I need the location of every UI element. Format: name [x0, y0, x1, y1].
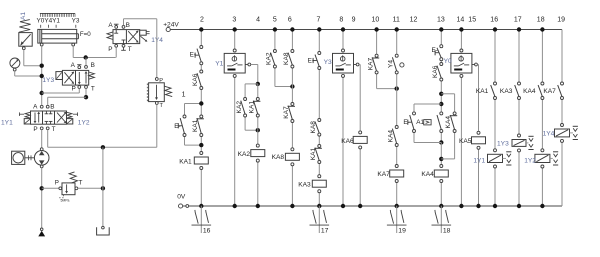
svg-text:1Y2: 1Y2: [524, 158, 536, 165]
svg-text:KA8: KA8: [272, 154, 285, 161]
pushbutton E- (rung 2): [190, 46, 203, 65]
current path numbers 1-19: [182, 16, 565, 98]
svg-text:5: 5: [273, 16, 277, 23]
svg-text:KA8: KA8: [283, 52, 290, 65]
svg-text:1Y4: 1Y4: [543, 130, 555, 137]
valve 1Y3 port P: [72, 86, 81, 93]
svg-text:B: B: [126, 22, 130, 29]
valve 1Y4 port B: [122, 22, 130, 29]
contact KA1 (rung 16): [476, 82, 497, 100]
svg-text:1Y3: 1Y3: [42, 77, 54, 84]
valve solenoid 1Y3: [497, 134, 526, 152]
contact KA2 (rung 5): [266, 50, 277, 69]
svg-text:KA4: KA4: [421, 171, 434, 178]
rung 14 wire: [459, 27, 463, 208]
suppressor 1Y3: [526, 136, 534, 149]
svg-text:4: 4: [256, 16, 260, 23]
svg-text:KA1: KA1: [310, 147, 317, 160]
suppressor 1Y4: [570, 126, 578, 139]
svg-text:Y3: Y3: [324, 59, 332, 66]
svg-text:KA1: KA1: [249, 101, 256, 114]
svg-text:KA6: KA6: [341, 138, 354, 145]
contact KA8 (rung 6): [283, 50, 294, 69]
parallel branch 12 wire: [414, 104, 441, 143]
svg-text:E-: E-: [403, 119, 409, 126]
rung 10 wire: [374, 27, 399, 91]
valve 1Y3 port B: [85, 62, 95, 69]
cylinder ports: [40, 43, 74, 46]
valve 1Y3 body: [62, 70, 88, 85]
rung 6 wire: [290, 27, 294, 208]
contact KA4 (rung 18): [523, 82, 544, 100]
svg-text:15: 15: [468, 16, 476, 23]
rung 16 wire: [493, 27, 497, 208]
svg-text:17: 17: [514, 16, 522, 23]
pressure gauge: [10, 58, 20, 71]
svg-text:KA6: KA6: [432, 65, 439, 78]
valve 1Y3 label: [42, 77, 54, 84]
svg-text:KA2: KA2: [236, 101, 243, 114]
wire cylinder left port to trunk: [40, 46, 44, 105]
svg-text:E-: E-: [174, 123, 180, 130]
svg-text:7: 7: [316, 16, 320, 23]
svg-text:P: P: [33, 126, 37, 133]
svg-text:16: 16: [203, 228, 211, 235]
svg-text:E-: E-: [190, 52, 196, 59]
svg-text:A1: A1: [416, 119, 424, 126]
valve 1Y4 port T: [121, 44, 132, 53]
svg-text:KA2: KA2: [238, 151, 251, 158]
valve 4/3 port A: [33, 104, 43, 111]
wire cylinder right port: [73, 46, 116, 60]
svg-text:Y0: Y0: [444, 58, 452, 65]
svg-text:5MPa: 5MPa: [61, 199, 70, 203]
wire 1Y3 B up: [85, 58, 87, 66]
pressure switch Y1: [215, 49, 251, 77]
rung 17 wire: [517, 27, 521, 208]
tank connection triangle: [38, 228, 45, 236]
svg-text:1Y1: 1Y1: [1, 119, 13, 126]
proximity switch A1 (rung 13): [416, 112, 443, 133]
contact KA7 n.c. (rung 6): [283, 103, 295, 123]
svg-text:P: P: [108, 46, 112, 53]
relay coil KA5: [459, 131, 486, 149]
limit indicator 18: [432, 206, 452, 235]
valve 1Y4 solenoid: [140, 30, 150, 42]
svg-text:KA7: KA7: [367, 57, 374, 70]
wire trunk to relief valve: [42, 187, 59, 189]
valve 1Y4 port P: [108, 44, 117, 53]
svg-text:KA8: KA8: [310, 121, 317, 134]
svg-text:0V: 0V: [177, 194, 186, 201]
valve 1Y1/1Y2 labels: [1, 119, 90, 126]
contact KA4 (rung 11): [388, 126, 399, 147]
valve 1Y4 port A: [108, 22, 118, 29]
svg-text:10: 10: [372, 16, 380, 23]
pushbutton E- (rung 13): [432, 45, 443, 61]
wire 1Y3 T to 4/3 B: [48, 88, 89, 105]
contact KA1 n.c. (rung 4): [249, 98, 261, 118]
svg-text:18: 18: [537, 16, 545, 23]
svg-text:KA1: KA1: [192, 119, 199, 132]
pressure switch Y0: [444, 49, 478, 77]
svg-text:KA7: KA7: [283, 106, 290, 119]
svg-text:3: 3: [232, 16, 236, 23]
svg-text:A1: A1: [20, 12, 27, 20]
pushbutton E- (branch 12): [403, 112, 415, 133]
cylinder A1 body: [38, 29, 79, 43]
svg-text:KA7: KA7: [543, 88, 556, 95]
wire pump to tank: [40, 168, 44, 228]
svg-text:E-: E-: [432, 47, 438, 54]
svg-text:T: T: [79, 180, 83, 187]
wire sequence valve T to return: [103, 104, 157, 147]
relay coil KA7: [377, 165, 403, 183]
tank symbol: [97, 226, 110, 235]
rung 19 wire: [561, 98, 563, 125]
svg-text:1Y1: 1Y1: [473, 158, 485, 165]
motor shaft: [25, 155, 35, 160]
valve solenoid 1Y4: [543, 124, 570, 143]
rung 3 wire: [233, 27, 237, 208]
rung 18 wire: [540, 27, 544, 208]
relay coil KA1: [179, 152, 208, 170]
pushbutton E- (branch 1): [174, 115, 186, 137]
svg-text:8: 8: [339, 16, 343, 23]
Y1 output wire: [245, 65, 260, 209]
Y0 output wire: [476, 65, 480, 209]
relay coil KA6: [341, 131, 367, 149]
accumulator A1 valve: [19, 33, 32, 50]
pressure switch Y3: [324, 49, 359, 77]
svg-text:KA5: KA5: [459, 138, 472, 145]
svg-text:KA1: KA1: [476, 88, 489, 95]
svg-text:F=0: F=0: [80, 31, 91, 38]
rung 8 wire: [341, 27, 345, 208]
svg-text:19: 19: [557, 16, 565, 23]
rung 11 wire: [395, 27, 399, 208]
valve 1Y4 body: [113, 30, 140, 44]
svg-text:B: B: [91, 62, 95, 69]
hydraulic pump: [34, 148, 49, 168]
contact KA7 n.c. (rung 10): [367, 54, 379, 74]
contact KA7 (rung 19): [543, 82, 563, 100]
svg-text:KA2: KA2: [266, 52, 273, 65]
valve 4/3 port P: [33, 126, 43, 133]
parallel branch 1 wire: [185, 101, 204, 147]
svg-text:Y1: Y1: [215, 61, 223, 68]
svg-text:KA3: KA3: [298, 181, 311, 188]
wire 1Y3 P to trunk: [42, 88, 80, 93]
suppressor 1Y1: [503, 152, 512, 165]
relay coil KA4: [421, 165, 448, 183]
svg-text:T: T: [128, 46, 132, 53]
svg-text:A: A: [33, 104, 38, 111]
relay coil KA2: [238, 144, 265, 162]
svg-text:1: 1: [182, 92, 186, 99]
electric motor: [12, 151, 25, 164]
svg-text:KA6: KA6: [192, 73, 199, 86]
valve 4/3 port T: [46, 126, 55, 133]
svg-text:KA4: KA4: [445, 116, 452, 129]
pressure relief valve: [55, 172, 83, 203]
svg-text:KA3: KA3: [500, 88, 513, 95]
svg-text:11: 11: [393, 16, 400, 23]
svg-text:Y0Y4Y1: Y0Y4Y1: [37, 18, 61, 25]
contact KA6 (rung 13): [432, 63, 443, 82]
valve 1Y3 port A: [71, 62, 82, 69]
svg-text:A: A: [71, 62, 76, 69]
cylinder sensor ticks: [41, 25, 76, 28]
valve 4/3 right actuator: [67, 112, 78, 124]
svg-text:17: 17: [321, 228, 329, 235]
wire relief T to return line: [78, 186, 105, 190]
parallel branch KA4 wire: [441, 94, 454, 159]
svg-text:13: 13: [437, 16, 445, 23]
svg-text:16: 16: [490, 16, 498, 23]
cylinder sensor labels: [37, 18, 80, 25]
sequence valve: [147, 78, 172, 109]
valve 4/3 port B: [46, 104, 54, 111]
rung 7 wire: [317, 27, 321, 208]
valve 1Y3 port T: [85, 86, 95, 93]
svg-text:KA1: KA1: [179, 158, 192, 165]
0V supply rail: [177, 142, 562, 209]
contact KA1 n.c. (rung 7): [310, 145, 322, 164]
svg-text:P: P: [55, 180, 59, 187]
svg-text:9: 9: [352, 16, 356, 23]
svg-text:18: 18: [443, 228, 451, 235]
valve 1Y3 spring: [89, 72, 95, 79]
svg-text:Y3: Y3: [72, 18, 80, 25]
svg-text:2: 2: [200, 16, 204, 23]
valve solenoid 1Y1: [473, 149, 502, 168]
svg-text:T: T: [91, 86, 95, 93]
svg-text:P: P: [72, 86, 76, 93]
Y3 output wire: [358, 65, 362, 209]
limit indicator 19: [387, 206, 407, 235]
wire 4/3 P to pump: [41, 130, 43, 149]
svg-text:T: T: [52, 126, 56, 133]
svg-text:A: A: [108, 22, 113, 29]
svg-text:19: 19: [398, 228, 406, 235]
svg-text:12: 12: [410, 16, 418, 23]
wire gauge to trunk: [15, 71, 42, 76]
svg-text:+24V: +24V: [163, 22, 179, 29]
pushbutton E- (rung 7): [308, 52, 321, 70]
svg-text:KA4: KA4: [523, 88, 536, 95]
svg-text:Y4: Y4: [388, 60, 395, 68]
wire 4/3 T to return: [48, 130, 105, 150]
svg-text:1Y2: 1Y2: [78, 119, 90, 126]
suppressor 1Y2: [550, 152, 558, 165]
valve 1Y4 label: [151, 37, 163, 44]
contact KA2 hold (rung 4): [236, 98, 247, 118]
accumulator A1 spring: [19, 20, 31, 33]
valve solenoid 1Y2: [524, 149, 550, 168]
svg-text:E-: E-: [308, 57, 314, 64]
valve 1Y3 solenoid: [56, 72, 63, 80]
contact KA8 (rung 7): [310, 119, 321, 137]
relay coil KA3: [298, 175, 326, 193]
reed switch Y4 (rung 11): [388, 54, 405, 74]
contact KA4 n.c. (branch): [445, 112, 457, 133]
wire A1 to trunk: [24, 50, 42, 66]
+24V supply rail: [163, 22, 562, 84]
cylinder force label: [80, 31, 91, 38]
svg-text:14: 14: [457, 16, 465, 23]
svg-text:T: T: [160, 103, 164, 109]
valve 4/3 left actuator: [19, 112, 30, 124]
relay coil KA8: [272, 148, 300, 166]
cylinder scale ruler: [40, 13, 75, 17]
wire 1Y4 B to sequence valve: [124, 19, 157, 78]
rung 2 wire: [199, 27, 203, 208]
contact KA6 (rung 2): [192, 70, 203, 90]
svg-text:KA4: KA4: [388, 130, 395, 143]
contact KA1 n.c. self-hold (rung 2): [192, 115, 204, 137]
contact KA3 (rung 17): [500, 82, 521, 100]
svg-text:1Y3: 1Y3: [497, 140, 509, 147]
svg-text:B: B: [50, 104, 54, 111]
wire 1Y4 P down: [115, 47, 117, 57]
rung 5 wire: [273, 27, 295, 88]
svg-text:6: 6: [288, 16, 292, 23]
rung 13 wire: [439, 27, 443, 208]
valve 4/3 body: [31, 111, 67, 124]
valve 1Y4 spring: [107, 32, 113, 40]
accumulator A1 label: [20, 12, 27, 20]
limit indicator 17: [310, 206, 330, 235]
svg-text:KA7: KA7: [377, 171, 390, 178]
return line to tank: [102, 147, 104, 226]
limit indicator 16: [192, 206, 212, 235]
